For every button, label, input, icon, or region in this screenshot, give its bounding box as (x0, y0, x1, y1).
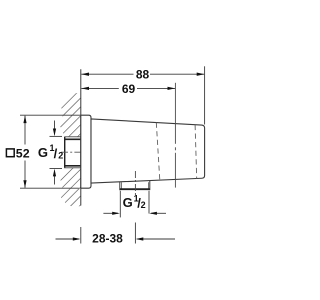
svg-text:52: 52 (16, 146, 30, 160)
wall hatching lower (60, 168, 81, 207)
svg-text:2: 2 (58, 150, 63, 160)
svg-text:28-38: 28-38 (92, 231, 123, 245)
wall hatching upper (60, 93, 81, 137)
hidden dashed line A (cone inner edge) (156, 123, 160, 181)
G1/2 pointer arrows (wall side) (54, 121, 56, 135)
wall face line (80, 69, 82, 205)
flange (square escutcheon, side view) (81, 115, 91, 188)
outlet centerline (vertical) (134, 171, 136, 197)
svg-text:2: 2 (141, 200, 146, 210)
hidden dashed line B (cone mouth edge) (195, 125, 197, 179)
dimension 88 (81, 66, 204, 124)
G1/2 extension ticks (wall side) (50, 135, 63, 137)
dimension 52 extension lines (20, 115, 80, 188)
dimension 52 line (24, 116, 26, 145)
square symbol of label "52" (6, 149, 14, 157)
body (tapered holder, side view) (91, 119, 205, 183)
svg-text:69: 69 (122, 82, 136, 96)
dimension 69 (81, 87, 175, 89)
outlet centerline extension (28-38) (134, 223, 136, 244)
svg-text:G: G (123, 195, 133, 210)
outlet nipple (bottom G1/2) (120, 180, 150, 190)
svg-text:88: 88 (136, 67, 150, 81)
dimension 28-38 (56, 238, 80, 240)
G1/2 dimension (outlet) arrows (103, 212, 118, 214)
wall face extension (28-38) (80, 227, 82, 244)
main centerline (horizontal) (61, 151, 91, 153)
holder axis centerline (x=175.4) (174, 83, 176, 144)
svg-text:G: G (38, 145, 48, 160)
svg-text:/: / (54, 146, 58, 161)
G1/2 dimension (outlet) extension lines (119, 191, 121, 218)
in-wall fitting G1/2 socket (65, 137, 81, 168)
